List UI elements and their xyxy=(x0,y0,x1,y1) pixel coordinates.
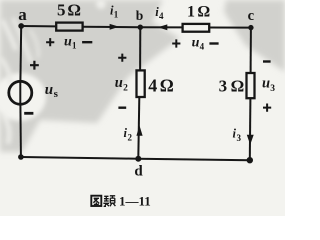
svg-text:1—11: 1—11 xyxy=(119,194,151,209)
node c junction dot xyxy=(248,25,253,30)
polarity minus of u4 xyxy=(209,42,218,44)
resistor R3 3-ohm body xyxy=(247,73,255,98)
current arrow i2 head (pointing up) xyxy=(136,126,142,136)
node b junction dot xyxy=(138,25,143,30)
svg-text:1: 1 xyxy=(187,3,195,20)
wire: top, node a to 5-ohm resistor xyxy=(21,25,56,27)
wire: top, 1-ohm resistor to node c xyxy=(210,27,251,29)
current arrow i4 head (pointing left) xyxy=(158,24,168,30)
polarity plus of us xyxy=(30,61,39,70)
resistor R4 1-ohm body xyxy=(183,24,210,32)
svg-text:Ω: Ω xyxy=(160,75,174,95)
svg-text:Ω: Ω xyxy=(197,3,210,20)
current arrow i1 head xyxy=(110,24,120,30)
wire: middle branch, 4-ohm resistor down to node d xyxy=(138,98,139,159)
current arrow i3 head (pointing down) xyxy=(247,135,254,145)
svg-text:d: d xyxy=(134,163,143,179)
wire: right branch, node c down to 3-ohm resistor xyxy=(250,28,252,73)
polarity minus of us xyxy=(24,112,33,115)
polarity minus of u2 xyxy=(118,106,126,108)
polarity plus of u2 xyxy=(118,54,126,62)
wire: top, node b to 1-ohm resistor xyxy=(140,26,182,28)
svg-text:b: b xyxy=(136,8,144,23)
polarity minus of u3 xyxy=(263,60,271,62)
wire: left branch, source bottom down to bottom-left corner xyxy=(19,104,22,157)
wire: right branch, 3-ohm resistor down to bottom-right corner xyxy=(249,99,252,161)
wire: left branch, node a down to source top xyxy=(19,26,22,82)
wire: bottom, left corner to node d xyxy=(21,157,138,159)
figure caption 图题 1-11 xyxy=(91,194,150,209)
resistor R2 4-ohm body xyxy=(137,70,145,97)
svg-text:Ω: Ω xyxy=(231,77,245,96)
wire: top, 5-ohm resistor to node b xyxy=(83,26,140,28)
svg-text:5: 5 xyxy=(57,0,66,19)
polarity plus of u3 xyxy=(263,104,271,112)
voltage source us circle xyxy=(9,81,32,104)
wire: bottom, node d to bottom-right corner xyxy=(138,159,250,161)
node a junction dot xyxy=(18,23,24,29)
bottom-left corner junction dot xyxy=(18,154,24,160)
resistor R1 5-ohm body xyxy=(56,23,82,31)
wire: middle branch, node b down to 4-ohm resistor xyxy=(139,27,141,70)
svg-text:c: c xyxy=(248,8,255,24)
polarity plus of u1 xyxy=(46,38,54,46)
svg-text:3: 3 xyxy=(219,77,228,96)
polarity minus of u1 xyxy=(82,41,92,43)
svg-text:a: a xyxy=(18,5,27,24)
svg-text:4: 4 xyxy=(148,76,157,96)
node d junction dot xyxy=(135,156,141,162)
bottom-right corner junction dot xyxy=(247,157,253,163)
svg-text:Ω: Ω xyxy=(67,0,81,19)
polarity plus of u4 xyxy=(172,39,180,47)
voltage source us internal lead xyxy=(19,82,21,104)
